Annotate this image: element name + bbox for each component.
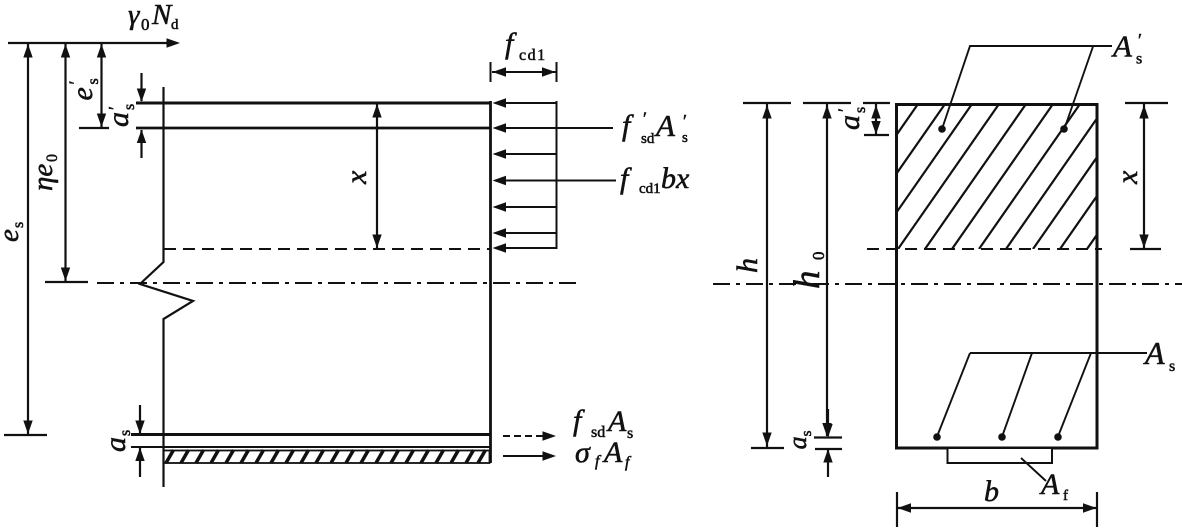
arrow sigma_f A_f	[503, 455, 546, 457]
svg-text:A: A	[606, 405, 627, 438]
label a'_s right	[833, 107, 869, 130]
svg-text:A: A	[1143, 335, 1165, 371]
svg-text:0: 0	[44, 154, 61, 162]
dimension x right	[1125, 103, 1168, 249]
dimension e'_s	[79, 43, 109, 128]
dimension a'_s left	[140, 73, 142, 158]
svg-text:s: s	[852, 107, 869, 113]
label e'_s	[66, 78, 103, 100]
dimension e_s	[4, 43, 47, 435]
cross-section rectangle	[897, 105, 1098, 449]
label f_sd A_s	[573, 404, 633, 442]
member left edge with break zigzag	[140, 87, 193, 487]
svg-text:x: x	[340, 170, 373, 185]
svg-text:′: ′	[66, 81, 86, 85]
label x right	[1111, 170, 1144, 185]
label a'_s left	[102, 104, 138, 127]
label A_f	[1039, 468, 1068, 504]
label sigma_f A_f	[575, 436, 632, 471]
stress arrows on block	[497, 103, 616, 248]
svg-text:A: A	[1111, 29, 1133, 64]
svg-text:′: ′	[683, 111, 687, 131]
label f'_sd A'_s	[622, 108, 688, 147]
neutral axis dashed line left	[164, 248, 490, 250]
svg-text:s: s	[682, 130, 688, 146]
label x left	[340, 170, 373, 185]
dimension eta e0	[45, 43, 88, 282]
label f_cd1 bx	[620, 162, 690, 197]
svg-text:cd1: cd1	[519, 47, 547, 64]
svg-text:N: N	[151, 0, 173, 31]
stress block right boundary	[556, 101, 558, 249]
svg-text:a: a	[833, 115, 866, 130]
rebar dot A'_s 2	[1060, 125, 1068, 133]
svg-text:e: e	[0, 229, 25, 242]
svg-text:h: h	[787, 271, 828, 290]
svg-text:s: s	[117, 430, 134, 436]
svg-text:x: x	[1111, 170, 1144, 185]
svg-text:′: ′	[643, 109, 647, 129]
svg-text:s: s	[10, 222, 27, 228]
label A_s	[1143, 335, 1175, 375]
dimension x left	[376, 104, 378, 248]
bonded layer A_f plate	[948, 448, 1053, 463]
svg-text:e: e	[66, 87, 99, 100]
svg-text:0: 0	[809, 252, 828, 261]
svg-text:s: s	[85, 78, 102, 84]
dimension h	[743, 103, 791, 448]
centroid dash-dot line left	[97, 282, 578, 284]
leader line A_f	[1021, 458, 1046, 481]
svg-text:b: b	[984, 475, 999, 508]
svg-text:a: a	[102, 112, 135, 127]
svg-text:ηe: ηe	[27, 164, 59, 191]
rebar dot A_s 3	[1054, 433, 1062, 441]
svg-text:σ: σ	[575, 436, 591, 469]
svg-text:sd: sd	[641, 131, 655, 147]
label eta e0	[27, 154, 61, 191]
svg-text:A: A	[654, 108, 676, 143]
svg-text:s: s	[1136, 51, 1142, 68]
label e_s	[0, 222, 27, 242]
dimension a_s right	[815, 409, 842, 477]
neutral axis dashed line right	[867, 248, 1102, 250]
svg-text:0: 0	[141, 15, 150, 34]
leader lines A'_s	[943, 46, 1112, 127]
svg-text:s: s	[627, 425, 633, 442]
svg-text:d: d	[171, 17, 179, 33]
svg-text:h: h	[731, 258, 764, 273]
svg-text:′: ′	[1138, 30, 1142, 50]
member bottom edge line	[131, 446, 490, 448]
force line gamma0 Nd	[8, 42, 170, 44]
svg-text:a: a	[99, 437, 132, 452]
svg-text:f: f	[1063, 488, 1068, 504]
label f_cd1	[505, 27, 547, 64]
dimension b	[897, 492, 1097, 527]
compression zone hatching	[790, 104, 1182, 249]
tension steel A_s line	[131, 433, 490, 436]
svg-text:A: A	[1039, 468, 1060, 501]
rebar dot A'_s 1	[938, 125, 946, 133]
member top edge line	[136, 102, 490, 105]
rebar dot A_s 1	[933, 433, 941, 441]
svg-text:A: A	[602, 436, 623, 469]
svg-text:s: s	[121, 104, 138, 110]
centroid dash-dot line right	[713, 283, 1182, 285]
label h	[731, 258, 764, 273]
label A'_s	[1111, 29, 1142, 68]
dimension h0	[803, 103, 851, 438]
member right edge	[489, 101, 492, 463]
label a_s left	[99, 430, 134, 452]
svg-text:cd1: cd1	[639, 181, 661, 197]
dimension a'_s right	[863, 103, 890, 135]
dimension f_cd1	[491, 62, 557, 82]
svg-text:γ: γ	[128, 0, 141, 31]
bonded layer A_f hatched strip	[164, 450, 490, 463]
label h0	[787, 252, 828, 290]
label gamma0 Nd	[128, 0, 179, 34]
dimension a_s left	[139, 405, 141, 477]
compression steel A'_s line	[136, 127, 490, 130]
svg-text:bx: bx	[661, 162, 690, 195]
arrow f_sd A_s	[503, 435, 546, 437]
leader lines A_s	[938, 353, 1147, 434]
svg-text:s: s	[1169, 358, 1175, 375]
rebar dot A_s 2	[998, 433, 1006, 441]
